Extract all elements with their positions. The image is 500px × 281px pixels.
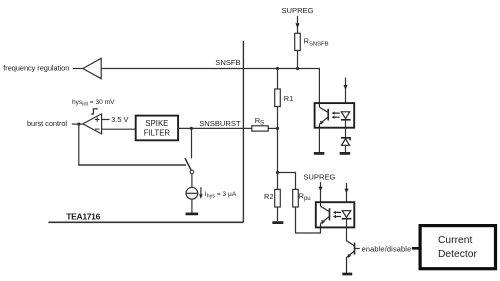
switch S1 pivot circle	[190, 170, 194, 174]
resistor RSNSFB	[295, 33, 301, 50]
pin label - (inverting input)	[95, 128, 100, 130]
current direction arrow	[200, 187, 202, 195]
svg-text:SUPREG: SUPREG	[281, 6, 313, 15]
zener diode D1	[341, 138, 350, 141]
ground (R2)	[272, 221, 283, 224]
hysteresis symbol above comparator	[91, 109, 98, 114]
wire: SUPREG feed arrow into RSNSFB	[297, 16, 299, 34]
svg-text:enable/disable: enable/disable	[362, 244, 412, 253]
svg-text:TEA1716: TEA1716	[66, 212, 100, 222]
node junction: switch tap on SNSBURST	[190, 127, 193, 130]
optocoupler O2 box	[316, 202, 355, 227]
node junction: RSNSFB bottom on SNSFB net	[296, 67, 299, 70]
wire: 3.5 V reference to + input	[102, 119, 110, 121]
resistor R1	[277, 69, 279, 90]
ground (current source)	[186, 213, 199, 216]
wire: LED drive arrow into O1 anode	[345, 78, 347, 104]
svg-text:SNSFB: SNSFB	[215, 58, 240, 67]
comparator U2 (burst, points left)	[83, 114, 102, 134]
wire: frequency regulation to buffer tip	[73, 68, 83, 70]
ground (zener)	[340, 152, 351, 155]
svg-text:SUPREG: SUPREG	[303, 172, 335, 181]
svg-text:burst control: burst control	[27, 119, 67, 128]
resistor Rpu	[293, 189, 299, 207]
wire: SUPREG feed arrow into O2 collector	[320, 182, 322, 202]
wire: SNSFB net from buffer to optocoupler O1 collector	[101, 69, 319, 104]
svg-text:Current: Current	[438, 235, 472, 246]
resistor RS	[252, 126, 268, 131]
optocoupler O2 LED	[342, 211, 351, 218]
wire: O2 cathode to transistor Q1 collector	[346, 227, 348, 240]
node junction: R2 / Rpu tap	[276, 171, 279, 174]
optocoupler O1 light arrows	[334, 113, 340, 117]
current source Ihys	[186, 187, 198, 199]
svg-text:frequency regulation: frequency regulation	[3, 64, 69, 73]
resistor R2	[277, 173, 279, 190]
optocoupler O1 box	[315, 103, 355, 128]
svg-text:R2: R2	[264, 192, 273, 201]
ground (O1 emitter)	[314, 152, 325, 155]
svg-text:R1: R1	[284, 94, 293, 103]
wire: SNSBURST tap down to switch	[191, 128, 193, 158]
wire: Q1 base to enable/disable	[355, 248, 360, 250]
optocoupler O1 phototransistor	[319, 103, 328, 128]
buffer U1 (frequency regulation, points left)	[83, 58, 101, 78]
wire: burst control to comparator output	[72, 123, 83, 125]
svg-text:SPIKE: SPIKE	[145, 119, 168, 128]
block Current Detector	[420, 226, 495, 269]
wire: divider column down	[277, 128, 279, 172]
wire: SNSBURST net from spike filter to RS	[178, 127, 252, 129]
node junction: R1 top on SNSFB net	[276, 67, 279, 70]
svg-text:Detector: Detector	[438, 249, 477, 260]
wire: O1 cathode to zener D1	[345, 128, 347, 138]
optocoupler O1 LED	[341, 112, 350, 119]
optocoupler O2 light arrows	[335, 212, 341, 216]
wire: O1 emitter to ground	[318, 128, 320, 152]
optocoupler O2 phototransistor	[321, 202, 330, 227]
block U3 SPIKE FILTER	[136, 116, 178, 141]
wire: - input to spike filter	[102, 128, 136, 130]
wire: RS to R1/R2 column	[268, 127, 277, 129]
wire: stub into current detector	[412, 247, 419, 250]
IC TEA1716 boundary (bottom)	[48, 221, 243, 223]
wire: switch to current source	[191, 174, 193, 188]
wire: current source to ground	[191, 199, 193, 212]
IC TEA1716 boundary (right side)	[242, 41, 244, 222]
ground (Q1 emitter)	[342, 273, 352, 276]
switch S1 blade	[185, 158, 191, 170]
wire: comparator feedback to switch control	[78, 124, 80, 165]
node junction: comparator output / feedback tap	[77, 123, 80, 126]
transistor Q1	[347, 241, 355, 273]
pin label + (non-inverting input)	[95, 117, 100, 122]
node junction: RS / R1 / divider	[276, 127, 279, 130]
wire: RSNSFB bottom lead to SNSFB net	[297, 51, 299, 69]
wire: Rpu bottom to optocoupler O2 emitter	[296, 207, 321, 233]
svg-text:3.5 V: 3.5 V	[111, 115, 128, 124]
wire: tap to Rpu top	[278, 173, 296, 190]
svg-text:FILTER: FILTER	[144, 129, 171, 138]
wire: LED drive arrow into O2 anode	[346, 183, 348, 202]
svg-text:SNSBURST: SNSBURST	[199, 119, 241, 128]
